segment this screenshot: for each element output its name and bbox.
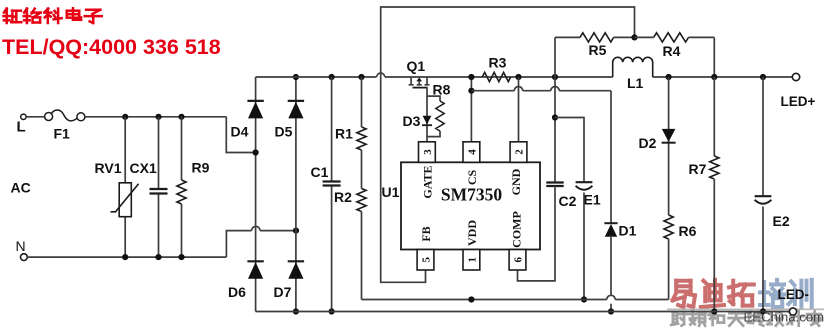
svg-text:FB: FB — [419, 226, 433, 241]
svg-text:CX1: CX1 — [130, 160, 157, 176]
svg-text:4: 4 — [467, 149, 479, 155]
capacitor E2 — [755, 77, 790, 312]
node R4-R7 rail junction — [711, 74, 717, 80]
watermark grey characters — [671, 311, 824, 325]
svg-text:5: 5 — [421, 257, 433, 263]
node CX1 bottom junction — [155, 254, 161, 260]
node D1 bottom junction — [608, 308, 614, 314]
wire bridge right leg — [295, 77, 297, 312]
node C1 bottom junction — [329, 308, 335, 314]
watermark underline — [667, 308, 824, 310]
resistor R2 — [334, 189, 366, 300]
wire lower rail1 — [362, 299, 669, 301]
node CS loop junction — [468, 88, 474, 94]
svg-text:R6: R6 — [679, 223, 697, 239]
svg-text:R4: R4 — [663, 43, 681, 59]
diode D3 — [403, 113, 433, 129]
svg-text:LED+: LED+ — [781, 94, 816, 109]
diode D7 — [274, 261, 305, 300]
wire C2 to COMP — [518, 186, 556, 281]
svg-text:C2: C2 — [559, 193, 577, 209]
wire E1 to rail1 — [583, 193, 585, 300]
svg-text:VDD: VDD — [465, 220, 479, 246]
svg-text:R2: R2 — [334, 189, 352, 205]
wire R5 left leg — [554, 37, 556, 77]
inductor L1 — [613, 57, 653, 91]
capacitor C2 — [546, 183, 576, 210]
svg-text:TEL/QQ:4000 336 518: TEL/QQ:4000 336 518 — [2, 35, 221, 59]
node D5 top junction — [293, 74, 299, 80]
node CS rail junction — [468, 74, 474, 80]
diode D6 — [228, 261, 264, 300]
node R1 top junction — [358, 74, 364, 80]
svg-text:R3: R3 — [489, 55, 507, 71]
wire D2 branch — [668, 77, 670, 215]
svg-text:F1: F1 — [54, 126, 71, 142]
resistor R1 — [335, 77, 366, 189]
node R7 bottom junction — [711, 308, 717, 314]
svg-text:6: 6 — [513, 257, 525, 263]
svg-text:1: 1 — [467, 257, 479, 263]
svg-text:R1: R1 — [335, 126, 353, 142]
node LED- terminal — [778, 287, 810, 315]
node D2 top junction — [666, 74, 672, 80]
transistor Q1 — [407, 58, 430, 88]
svg-text:R9: R9 — [192, 159, 210, 175]
watermark red characters — [673, 280, 754, 307]
node R3 right junction — [515, 74, 521, 80]
svg-text:D7: D7 — [274, 284, 292, 300]
svg-text:3: 3 — [422, 149, 434, 155]
svg-text:CS: CS — [465, 170, 479, 186]
svg-text:LED-: LED- — [778, 287, 810, 302]
pin 4 (CS) — [463, 142, 480, 185]
resistor R5 — [555, 33, 635, 58]
wire N line — [27, 256, 226, 258]
svg-text:RV1: RV1 — [95, 160, 122, 176]
diode D5 — [275, 101, 305, 139]
varistor RV1 — [95, 117, 139, 257]
wire L line — [85, 116, 226, 118]
svg-text:D2: D2 — [639, 135, 657, 151]
resistor R6 — [664, 215, 697, 300]
watermark blue characters — [760, 280, 812, 307]
svg-text:EEChina.com: EEChina.com — [744, 310, 824, 325]
node L terminal — [17, 114, 27, 135]
wire N jog up to bridge — [226, 231, 251, 258]
svg-text:2: 2 — [514, 149, 526, 155]
pin 6 (COMP) — [509, 211, 526, 270]
node RV1 top junction — [122, 114, 128, 120]
wire gate line — [426, 88, 428, 142]
svg-text:L: L — [17, 119, 26, 136]
svg-text:U1: U1 — [382, 184, 400, 200]
wire bottom rail2 — [256, 311, 790, 313]
svg-text:D1: D1 — [619, 223, 637, 239]
svg-text:D5: D5 — [275, 123, 293, 139]
node C2-E1 node — [552, 114, 558, 120]
resistor R9 — [177, 117, 210, 257]
svg-text:D3: D3 — [403, 113, 421, 129]
svg-text:C1: C1 — [311, 164, 329, 180]
watermark site text — [744, 310, 824, 325]
node D7 bottom junction — [293, 308, 299, 314]
wire FB feedback loop — [381, 7, 635, 282]
svg-text:COMP: COMP — [510, 211, 524, 248]
diode D2 — [639, 129, 676, 151]
node LED+ terminal — [781, 73, 816, 109]
node E2 top junction — [760, 74, 766, 80]
svg-text:N: N — [16, 238, 26, 254]
diode D1 — [604, 223, 636, 239]
resistor R7 — [689, 77, 719, 312]
svg-text:E2: E2 — [773, 213, 790, 229]
node E2 bottom junction — [760, 308, 766, 314]
node R5-R4 junction — [631, 34, 637, 40]
node C1 top junction — [329, 74, 335, 80]
pin 5 (FB) — [417, 226, 434, 270]
svg-text:D6: D6 — [228, 284, 246, 300]
capacitor E1 — [576, 182, 601, 207]
svg-text:AC: AC — [11, 180, 31, 196]
wire L terminal to fuse — [26, 116, 44, 118]
node E1 bottom junction — [581, 296, 587, 302]
pin 1 (VDD) — [463, 220, 480, 270]
wire CS pin line — [470, 77, 472, 142]
capacitor CX1 — [130, 117, 168, 257]
wire L jog down to bridge — [226, 117, 255, 153]
diode D4 — [231, 101, 264, 139]
node CX1 top junction — [155, 114, 161, 120]
wire D1 to bottom rail — [607, 237, 615, 312]
svg-text:R7: R7 — [689, 161, 707, 177]
node R9 top junction — [178, 114, 184, 120]
node R9 bottom junction — [178, 254, 184, 260]
wire hop over left bridge leg — [252, 226, 296, 230]
svg-text:E1: E1 — [584, 192, 601, 208]
wire node to E1 — [555, 118, 584, 182]
svg-text:D4: D4 — [231, 123, 249, 139]
svg-text:R8: R8 — [433, 82, 451, 98]
logo text line 1 (vendor name) — [4, 8, 102, 23]
resistor R4 — [635, 33, 715, 77]
logo text line 2 (TEL/QQ) — [2, 35, 221, 59]
svg-text:GND: GND — [509, 168, 523, 195]
op-amp U1 body — [382, 162, 541, 249]
svg-text:GATE: GATE — [421, 165, 435, 198]
capacitor C1 — [311, 77, 341, 312]
node RV1 bottom junction — [122, 254, 128, 260]
wire top rail — [256, 73, 793, 77]
svg-text:R5: R5 — [589, 42, 607, 58]
node rail-R5 junction — [552, 74, 558, 80]
pin 3 (GATE) — [419, 142, 436, 199]
wire CS sense loop — [471, 86, 611, 223]
node N terminal — [16, 238, 28, 261]
wire GND pin line — [518, 77, 520, 142]
label AC — [11, 180, 31, 196]
svg-text:Q1: Q1 — [407, 58, 426, 74]
fuse F1 — [45, 110, 85, 142]
node VDD rail1 junction — [468, 296, 474, 302]
svg-text:SM7350: SM7350 — [441, 185, 503, 205]
svg-text:L1: L1 — [627, 75, 644, 91]
pin 2 (GND) — [509, 142, 527, 196]
wire bridge left leg — [255, 77, 257, 312]
resistor R8 — [427, 82, 451, 137]
node D4-D6 junction — [253, 149, 259, 155]
node D5-D7 junction — [293, 228, 299, 234]
resistor R3 — [482, 55, 510, 82]
wire node line — [554, 77, 556, 183]
